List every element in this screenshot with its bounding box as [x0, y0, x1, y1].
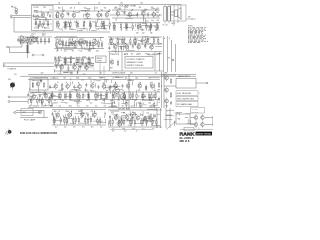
note line 13: [188, 41, 200, 44]
label midC lblrow6: [152, 53, 154, 55]
label spec t2: [127, 61, 144, 64]
wire out wire1: [205, 117, 213, 119]
label low midlbl5: [138, 90, 141, 92]
label midC lblrow4: [138, 53, 142, 55]
block table row1 box: [176, 91, 198, 95]
wire lowmain v25: [60, 86, 62, 91]
wire preamp x v11: [43, 20, 45, 26]
node s96n: [95, 39, 96, 40]
wire br link2: [190, 124, 194, 126]
wire midC h5: [148, 54, 155, 56]
wire midD v21: [60, 68, 62, 73]
wire botden v7: [110, 124, 112, 126]
svg-text:2k2: 2k2: [84, 7, 87, 9]
wire lowmain h78: [96, 80, 101, 82]
wire drvarea v3: [27, 99, 29, 104]
wire midD h18: [78, 65, 82, 67]
label s143t: [139, 7, 142, 9]
label low lblB39: [103, 100, 106, 102]
wire midB h8: [59, 44, 64, 46]
resistor R130: [75, 116, 76, 124]
resistor R119: [158, 82, 159, 88]
label toptop lbl4: [140, 2, 143, 4]
wire midD v17: [67, 64, 69, 67]
wire lowmain v7: [32, 82, 34, 87]
label vr lbl1: [164, 37, 165, 40]
label low lblB213: [149, 105, 152, 107]
resistor R95: [124, 92, 125, 100]
transistor TR41: [68, 112, 72, 119]
label s62b: [59, 74, 62, 76]
wire midD h15: [87, 63, 94, 65]
label s56b: [53, 102, 56, 104]
label midC lblrow5: [145, 53, 149, 55]
node s70n: [71, 111, 72, 112]
wire out wire2: [205, 124, 213, 126]
wire botmid v24: [55, 115, 57, 119]
wire top rail: [31, 4, 181, 6]
wire preamp x h8: [34, 9, 39, 11]
note line 5: [188, 31, 202, 34]
wire midB v17: [78, 50, 80, 51]
wire midC h4: [118, 45, 124, 47]
wire drvarea v0: [30, 105, 32, 106]
wire midB v9: [88, 47, 90, 51]
svg-text:470p: 470p: [33, 105, 36, 107]
wire midD h1: [79, 63, 88, 65]
capacitor C36: [145, 87, 147, 91]
svg-text:120k: 120k: [76, 77, 80, 79]
transistor TR51: [201, 121, 205, 127]
transistor TR47: [148, 115, 152, 122]
resistor R133: [112, 118, 113, 126]
wire bm rail1: [52, 109, 106, 111]
wire topA v5: [68, 23, 70, 29]
label s116t: [113, 77, 115, 79]
emblem (scan mark): [10, 82, 15, 91]
wire spk wire2: [171, 14, 175, 16]
wire lowmain v60: [41, 102, 43, 106]
wire botden v12: [153, 114, 155, 119]
wire midC h8: [143, 36, 149, 38]
wire botden h23: [111, 110, 119, 112]
svg-text:2u2: 2u2: [94, 113, 97, 115]
resistor R40: [28, 38, 29, 44]
testpoint TP2: [172, 59, 174, 61]
wire midC v26: [121, 46, 123, 51]
svg-text:3k3: 3k3: [136, 32, 139, 34]
wire preamp x h1: [34, 15, 41, 17]
capacitor C23: [27, 93, 29, 97]
wire midC h25: [112, 50, 117, 52]
svg-text:120k: 120k: [120, 2, 123, 4]
svg-text:470p: 470p: [145, 53, 149, 55]
capacitor C14: [90, 41, 92, 45]
wire botmid h3: [65, 118, 74, 120]
svg-text:TR1: TR1: [43, 7, 46, 9]
resistor R2: [39, 19, 40, 27]
wire midC v12: [146, 38, 148, 41]
resistor R73: [55, 57, 56, 65]
wire preamp x v10: [38, 25, 40, 29]
wire botmid v18: [104, 119, 106, 123]
wire botright h3: [166, 115, 174, 117]
wire botmid v27: [65, 120, 67, 123]
wire vert link: [27, 53, 29, 58]
wire midD h19: [79, 59, 84, 61]
wire midA h2: [27, 37, 34, 39]
label toptop lbl0: [58, 2, 61, 4]
resistor R22: [120, 22, 121, 30]
transistor TR1: [41, 12, 45, 19]
wire vrail2: [167, 36, 169, 72]
label s46t: [42, 93, 46, 95]
wire botden h2: [128, 114, 136, 116]
wire botden h27: [143, 119, 148, 121]
wire xfmr drop1: [173, 5, 175, 26]
wire lowmain v93: [113, 101, 115, 104]
label low lblB311: [118, 100, 121, 102]
wire topB h12: [141, 25, 149, 27]
wire bd botline: [110, 128, 152, 130]
wire midD h28: [66, 70, 73, 72]
label s82t: [78, 111, 82, 113]
wire lowmain v12: [112, 90, 114, 96]
capacitor C5: [56, 14, 58, 18]
resistor R117: [170, 78, 171, 84]
wire midB h27: [89, 47, 96, 49]
note line 1: [188, 27, 207, 30]
label low lblB313: [134, 100, 137, 102]
wire rail A2: [54, 18, 110, 20]
label pl lbl: [14, 74, 17, 76]
wire midC v2: [144, 45, 146, 47]
arrow head: [207, 82, 209, 84]
wire topB h26: [141, 10, 146, 12]
block table row2 box: [176, 96, 198, 100]
wire botmid h25: [104, 113, 106, 115]
svg-text:2u2: 2u2: [59, 105, 62, 107]
wire midA v6: [35, 37, 37, 39]
wire midB v5: [62, 39, 64, 43]
label s74b: [70, 74, 73, 76]
svg-text:15k: 15k: [20, 35, 23, 37]
svg-text:2k2: 2k2: [142, 32, 145, 34]
wire topB v3: [143, 16, 145, 20]
wire preamp x v0: [35, 22, 37, 24]
svg-text:50u: 50u: [93, 79, 96, 81]
wire topA v2: [99, 30, 101, 32]
resistor R68: [64, 57, 65, 65]
wire topA v19: [67, 21, 69, 24]
svg-text:1n: 1n: [122, 90, 124, 92]
capacitor C38: [158, 97, 160, 101]
wire topA h10: [98, 28, 106, 30]
wire plug wire2: [10, 101, 28, 103]
wire lowmain v38: [76, 101, 78, 105]
label midA lbl4: [44, 44, 46, 46]
transistor TR39: [165, 98, 169, 105]
label preamp lbl1: [34, 7, 39, 9]
block screened preamp box: [32, 6, 54, 31]
label notes heading: [188, 26, 193, 28]
wire bl wire1: [16, 110, 44, 112]
label s86t: [83, 57, 87, 59]
resistor R126: [90, 116, 91, 124]
wire botmid h0: [79, 122, 88, 124]
wire lowmain v84: [90, 77, 92, 82]
transistor TR50: [194, 121, 198, 127]
wire topB v8: [124, 22, 126, 25]
capacitor C30: [109, 85, 111, 89]
capacitor C29: [98, 85, 100, 89]
wire lowmain v91: [144, 94, 146, 98]
wire low rail 6: [28, 107, 160, 109]
wire topA h0: [75, 12, 79, 14]
wire botden h30: [128, 124, 132, 126]
wire topB v25: [155, 13, 157, 15]
wire lowmain h59: [35, 77, 40, 79]
svg-text:RV1: RV1: [34, 11, 37, 13]
wire botmid h10: [53, 120, 63, 122]
wire midB v6: [100, 44, 102, 47]
node s62n: [62, 64, 63, 65]
svg-text:R52: R52: [157, 16, 160, 18]
wire subrail v2: [121, 52, 123, 71]
node xd n1: [174, 12, 175, 13]
svg-text:22k: 22k: [30, 100, 33, 102]
svg-text:10n: 10n: [106, 90, 109, 92]
wire lowgap h13: [108, 106, 115, 108]
wire topB h16: [151, 19, 154, 21]
label topA midlbl3: [83, 21, 86, 23]
potentiometer RV1: [55, 11, 59, 18]
block mains box: [176, 79, 196, 89]
wire right edge v: [212, 116, 214, 126]
label bd botlbl2: [136, 130, 138, 132]
wire lowmain h30: [32, 77, 38, 79]
capacitor C17: [132, 44, 134, 48]
wire botden h17: [147, 108, 157, 110]
label preamp lbl7: [34, 11, 37, 13]
transistor TR31: [90, 82, 94, 89]
wire xfmr drop2: [177, 5, 179, 23]
wire topB v24: [142, 18, 144, 23]
wire midD rail: [54, 64, 94, 66]
label s94t2: [94, 113, 97, 115]
model text line 2: [180, 140, 191, 143]
wire midD v24: [76, 71, 78, 74]
wire preamp x h4: [44, 27, 50, 29]
transistor TR36: [150, 83, 154, 90]
wire botright v1: [178, 113, 180, 116]
label spec t1: [127, 58, 145, 61]
model text line 1: [180, 137, 195, 140]
label xfmr lbl1: [157, 12, 160, 14]
wire botmid v1: [82, 115, 84, 118]
svg-text:2k2: 2k2: [102, 21, 105, 23]
svg-text:100k: 100k: [96, 50, 100, 52]
label s99b: [96, 29, 100, 31]
wire lowmain v88: [70, 82, 72, 86]
wire plug wire1: [10, 96, 28, 98]
label midD mid4: [89, 63, 92, 65]
label s87t2: [87, 9, 90, 11]
label s116t2: [116, 115, 119, 117]
wire midB h24: [70, 42, 75, 44]
wire midB h21: [71, 43, 75, 45]
label midD mid0: [57, 63, 60, 65]
label SK1 text: [14, 7, 18, 9]
wire midB v13: [83, 47, 85, 49]
wire drvarea h9: [44, 93, 52, 95]
capacitor C22: [40, 79, 42, 83]
resistor R48: [92, 40, 93, 48]
resistor R3: [47, 19, 48, 27]
wire midD h4: [93, 68, 94, 70]
wire preamp x v7: [43, 22, 45, 26]
label tp lbl: [168, 58, 171, 60]
wire midD h7: [64, 72, 69, 74]
resistor R113: [111, 101, 112, 108]
label s130t2: [132, 9, 134, 11]
label s74t: [70, 7, 73, 9]
capacitor C39: [166, 104, 168, 108]
wire botden v16: [116, 114, 118, 118]
wire midB h4: [64, 45, 74, 47]
wire topB v1: [159, 30, 161, 33]
wire lowmain v87: [65, 93, 67, 99]
resistor R60: [153, 36, 154, 44]
label topA midlbl2: [74, 21, 77, 23]
label subrail lbl: [110, 68, 113, 70]
wire lowmain h63: [121, 103, 125, 105]
label s34t2: [35, 37, 38, 39]
label midC lblrow1: [117, 53, 120, 55]
resistor R34: [20, 36, 21, 44]
label s72t: [69, 39, 72, 41]
wire low rail 4: [28, 91, 160, 93]
resistor R43: [62, 40, 63, 48]
wire topB v29: [135, 24, 137, 27]
label s87b: [83, 29, 85, 31]
wire link wire mid: [110, 14, 162, 16]
resistor R39: [48, 38, 49, 44]
wire midB v12: [92, 46, 94, 49]
wire preamp wire3: [34, 23, 53, 25]
block driver box: [30, 78, 48, 90]
transistor TR31 (output): [120, 92, 126, 100]
resistor R98 (dark body): [27, 45, 29, 53]
wire left rail 2: [6, 66, 54, 68]
label drv lbl0: [29, 106, 32, 108]
label low lblB26: [86, 105, 89, 107]
wire midC v10: [123, 45, 125, 50]
wire botmid v21: [92, 113, 94, 117]
svg-text:1k: 1k: [44, 44, 46, 46]
wire topB h23: [123, 26, 131, 28]
wire lowmain v1: [152, 94, 154, 97]
node xd n2: [178, 16, 179, 17]
wire spk wire: [171, 11, 175, 13]
wire topA v33: [58, 12, 60, 14]
resistor R26: [146, 22, 147, 30]
label low lblB21: [41, 105, 43, 107]
wire topA v14: [104, 26, 106, 29]
label cluster lbl8: [136, 32, 139, 34]
label s104t: [100, 77, 103, 79]
wire botright h2: [166, 114, 172, 116]
resistor R18: [77, 21, 78, 29]
wire drop wire h: [10, 46, 23, 48]
wire topA h13: [64, 23, 68, 25]
wire bl vert: [43, 111, 45, 118]
wire lowmain v51: [136, 90, 138, 92]
svg-text:56k: 56k: [77, 102, 80, 104]
wire drop wire v2: [9, 47, 11, 53]
capacitor C31: [122, 84, 124, 88]
wire subrail v3: [154, 52, 156, 71]
label low lblB211: [131, 105, 134, 107]
wire topA v38: [82, 15, 84, 18]
svg-text:470p: 470p: [113, 105, 116, 107]
wire input wire b: [12, 16, 31, 18]
label bm lbl25: [100, 127, 103, 129]
wire botden h33: [127, 119, 134, 121]
transistor TR8: [128, 11, 132, 18]
wire vrail1: [163, 36, 165, 72]
wire lowgap v12: [115, 106, 117, 108]
wire botmid v6: [55, 113, 57, 115]
resistor R132: [99, 117, 100, 125]
wire midC h9: [157, 53, 162, 55]
svg-text:2k2: 2k2: [147, 27, 150, 29]
wire topB v20: [137, 12, 139, 15]
wire xfmr drop3: [180, 5, 182, 21]
svg-text:10k: 10k: [73, 63, 76, 65]
wire botden h18: [144, 116, 150, 118]
label midB low5: [96, 50, 100, 52]
wire lowmain v21: [138, 95, 140, 97]
wire midA h10: [33, 41, 37, 43]
wire lowmain h41: [99, 77, 105, 79]
label s24t2: [25, 37, 29, 39]
node s104n: [103, 83, 104, 84]
transistor TR20: [150, 44, 154, 51]
wire midC h1: [118, 39, 123, 41]
resistor R46: [80, 40, 81, 48]
svg-text:4k7: 4k7: [54, 100, 57, 102]
wire midD h10: [90, 65, 94, 67]
label low lblB312: [126, 100, 129, 102]
wire midC v23: [127, 46, 129, 50]
svg-text:8k2: 8k2: [111, 112, 114, 114]
resistor R4: [37, 14, 38, 19]
label low lblB20: [33, 105, 36, 107]
wire midA h7: [41, 41, 51, 43]
label s139b: [136, 54, 139, 56]
capacitor C16: [120, 45, 122, 49]
testpoint TP1: [32, 54, 34, 56]
label bm lbl21: [64, 127, 67, 129]
svg-text:120k: 120k: [94, 100, 97, 102]
resistor R140: [152, 118, 153, 126]
wire preamp x h5: [49, 9, 52, 11]
svg-text:R52: R52: [157, 8, 160, 10]
label control box t2: [97, 61, 103, 63]
testpoint TP3: [42, 54, 44, 56]
wire lowmain h48: [150, 97, 155, 99]
